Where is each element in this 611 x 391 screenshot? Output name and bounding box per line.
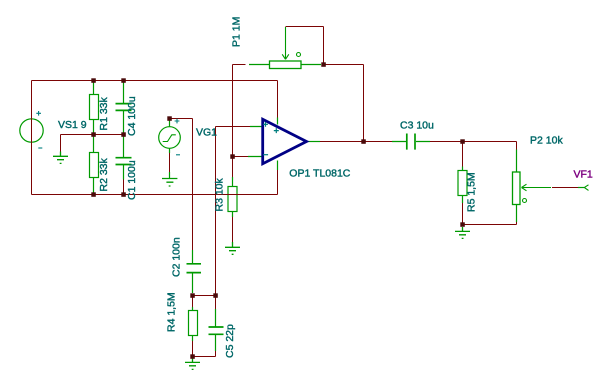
node R5 bottom [460, 222, 465, 227]
C2 leads [192, 250, 194, 293]
node C5 top [213, 293, 218, 298]
node P1 right/wiper [321, 62, 326, 67]
voltage source VS1 [20, 119, 43, 142]
ground gnd4 (bottom) [185, 357, 200, 369]
C1 leads [123, 136, 125, 180]
R5 leads [462, 167, 464, 204]
wire R5 bottom to junction [462, 203, 464, 225]
wire P1 left terminal column [233, 65, 246, 157]
P2 wiper arrow [522, 184, 552, 191]
svg-text:R3 10k: R3 10k [213, 177, 225, 211]
node feedback/output [361, 139, 366, 144]
wire C5 top stub [215, 296, 217, 310]
wire op-amp output run [320, 141, 392, 143]
resistor R3 [228, 187, 237, 212]
wire bottom supply rail [32, 194, 278, 196]
resistor R5 [458, 171, 467, 196]
svg-text:C1 100u: C1 100u [126, 160, 138, 200]
svg-text:VS1 9: VS1 9 [58, 119, 87, 131]
node divider mid R1 [91, 132, 96, 137]
resistor R1 [90, 95, 99, 120]
VF1 pin lead [578, 187, 584, 189]
potentiometer P2 body [513, 172, 521, 205]
resistor R2 [90, 153, 99, 178]
VG1 plus [175, 119, 180, 124]
R2 leads [93, 135, 95, 195]
wire P1 wiper loop [286, 27, 324, 65]
wire op-amp V+ drop [277, 81, 279, 118]
R1 leads [93, 81, 95, 135]
wire - input junction to op-amp [233, 156, 249, 158]
VG1 ground stub [169, 172, 171, 178]
VG1 minus [176, 154, 180, 156]
svg-text:C2 100n: C2 100n [170, 237, 182, 277]
node inverting input [230, 154, 235, 159]
svg-text:R5 1,5M: R5 1,5M [466, 172, 478, 212]
op-amp output lead [308, 141, 320, 143]
node C2/R4 [190, 293, 195, 298]
P1 wiper arrow [282, 27, 289, 59]
node R2 bottom [91, 192, 96, 197]
C5 leads [215, 309, 217, 351]
wire VG1 top to C2 column [170, 119, 193, 251]
wire node295 horizontal [193, 295, 216, 297]
svg-text:OP1 TL081C: OP1 TL081C [289, 168, 351, 180]
svg-text:VF1: VF1 [574, 169, 593, 181]
wire bottom of P2 to R5 junction [463, 222, 517, 225]
node VG1 top [167, 116, 172, 121]
op-amp power pin leads [277, 118, 279, 171]
capacitor C5 plates [209, 327, 224, 334]
R4 leads [192, 307, 194, 341]
svg-text:C5 22p: C5 22p [224, 324, 236, 358]
svg-text:C4 100u: C4 100u [126, 96, 138, 136]
svg-text:R4 1,5M: R4 1,5M [165, 292, 177, 332]
node R1 top [91, 78, 96, 83]
capacitor C3 plates [407, 134, 415, 150]
svg-text:R2 33k: R2 33k [98, 157, 110, 191]
node C3/R5/P2 [460, 139, 465, 144]
C4 leads [123, 82, 125, 135]
VS1 minus [38, 147, 42, 149]
wire top supply rail [32, 80, 278, 82]
ground gnd5 (R5) [455, 227, 470, 238]
node divider mid C4/C1 [121, 132, 126, 137]
VG1 waveform glyph [163, 135, 176, 142]
node C1 bottom [121, 192, 126, 197]
ground gnd3 (R3) [225, 242, 240, 254]
potentiometer P1 body [270, 61, 302, 69]
svg-text:P2 10k: P2 10k [530, 135, 563, 147]
ground gnd2 (VG1) [162, 179, 177, 187]
op-amp + input marker [263, 122, 279, 155]
svg-text:R1 33k: R1 33k [98, 96, 110, 130]
VG1 pin top [169, 120, 171, 127]
wire op-amp V- riser [277, 170, 279, 195]
capacitor C1 plates [116, 158, 132, 165]
svg-text:C3 10u: C3 10u [400, 120, 434, 132]
P1 leads [249, 64, 321, 66]
ground gnd1 (VS1 divider) [53, 152, 68, 164]
wire VG1 lower lead [169, 153, 171, 172]
wire left rail through VS1 [31, 81, 33, 195]
svg-text:P1 1M: P1 1M [231, 17, 243, 47]
op-amp OP1 triangle [263, 119, 307, 163]
wire R4 bottom stub [192, 341, 194, 357]
generator VG1 [159, 127, 181, 149]
op-amp inner + marker [274, 128, 279, 133]
R3 leads [232, 177, 234, 217]
wire P1 right to feedback corner [324, 65, 364, 142]
VS1 plus [36, 111, 41, 116]
capacitor C2 plates [187, 264, 202, 273]
wire C5 bottom to ground junction [193, 351, 216, 357]
C3 leads [392, 141, 430, 143]
wire divider mid to ground [61, 135, 124, 152]
wire op-amp + input to bottom column [216, 127, 251, 296]
source polarity marks [36, 111, 180, 155]
wire R5 top lead [462, 142, 464, 167]
P2 leads [516, 150, 518, 223]
P1 wiper circle marker [297, 53, 301, 57]
wire - input junction down to R3 [232, 157, 234, 178]
op-amp - input marker [263, 154, 268, 156]
wire C1 bottom stub [123, 180, 125, 195]
node C4 top [121, 78, 126, 83]
P2 wiper circle marker [523, 199, 527, 203]
capacitor C4 plates [116, 104, 132, 111]
wire C3 to P2 top [430, 142, 517, 150]
VG1 pin bottom [169, 148, 171, 153]
VF1 pin symbol [584, 185, 588, 191]
node R4/C5 bottom [190, 354, 195, 359]
wire R4 top stub [192, 296, 194, 308]
wire P2 wiper to VF1 [552, 187, 578, 189]
resistor R4 [189, 311, 198, 336]
wire R3 to ground [232, 217, 234, 242]
svg-text:VG1: VG1 [196, 127, 217, 139]
op-amp input leads [248, 127, 262, 157]
